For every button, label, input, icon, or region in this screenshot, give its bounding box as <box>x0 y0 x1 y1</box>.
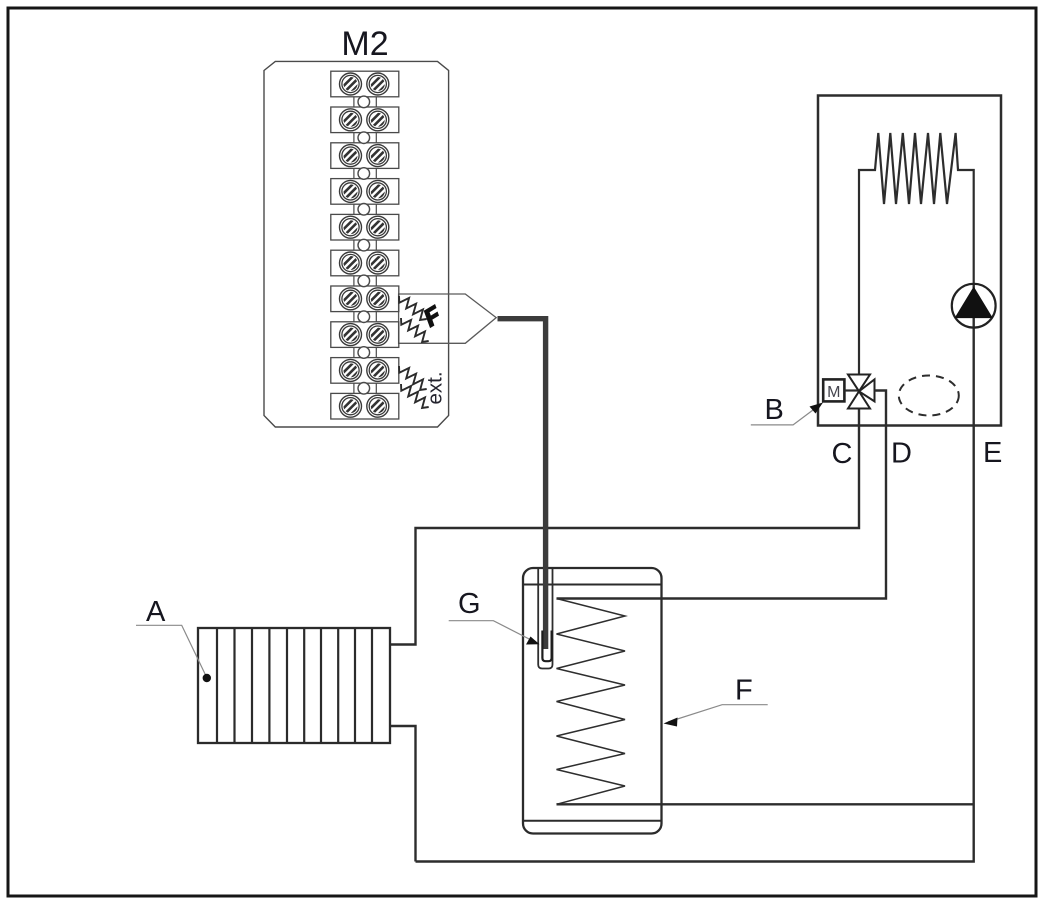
burner dashed ellipse <box>899 376 959 416</box>
sensor plug pentagon <box>399 294 497 343</box>
leader F arrowhead <box>664 718 678 727</box>
svg-text:C: C <box>832 438 853 470</box>
sensor capsule G <box>542 631 551 662</box>
valve B triangles <box>848 375 875 409</box>
leader A dot <box>203 674 211 682</box>
heat exchanger coil and pipes <box>859 133 974 375</box>
radiator A <box>198 628 390 743</box>
pipe C <box>390 409 859 645</box>
svg-text:A: A <box>146 596 166 628</box>
leader B <box>751 406 819 425</box>
svg-text:G: G <box>458 588 481 620</box>
tank coil bottom pipe <box>557 803 974 805</box>
svg-text:ext.: ext. <box>423 371 446 404</box>
leader G <box>449 621 535 642</box>
leader G arrowhead <box>526 637 540 645</box>
svg-text:F: F <box>735 675 753 707</box>
svg-text:E: E <box>983 437 1002 469</box>
svg-text:D: D <box>891 438 912 470</box>
pipe E (pump riser and return) <box>416 284 974 862</box>
pipe D <box>557 391 887 599</box>
ext springs rows 9-10 <box>399 366 427 390</box>
terminal block M2 outline <box>264 61 449 427</box>
svg-text:M: M <box>827 384 840 401</box>
svg-text:B: B <box>765 394 784 426</box>
tank bottom cap line <box>523 820 662 822</box>
terminal gap holes <box>358 96 370 394</box>
svg-text:M2: M2 <box>341 25 388 63</box>
svg-text:F: F <box>419 301 447 332</box>
radiator return pipe <box>390 726 416 862</box>
tank top cap line <box>523 584 662 586</box>
pump <box>952 284 996 328</box>
sensor cable <box>498 319 546 649</box>
valve stub <box>844 389 859 391</box>
leader B arrowhead <box>810 403 824 414</box>
tank F body <box>523 568 662 834</box>
leader A <box>136 625 207 677</box>
leader F <box>668 705 768 722</box>
terminal channel rails <box>354 97 376 394</box>
tank coil zigzag <box>557 599 626 805</box>
boiler box <box>818 96 1001 426</box>
sensor pocket <box>538 569 552 669</box>
terminal screws <box>340 73 391 419</box>
terminal strip rows <box>331 71 399 419</box>
sensor springs rows 7-8 <box>399 296 427 320</box>
valve B motor box <box>823 379 844 401</box>
